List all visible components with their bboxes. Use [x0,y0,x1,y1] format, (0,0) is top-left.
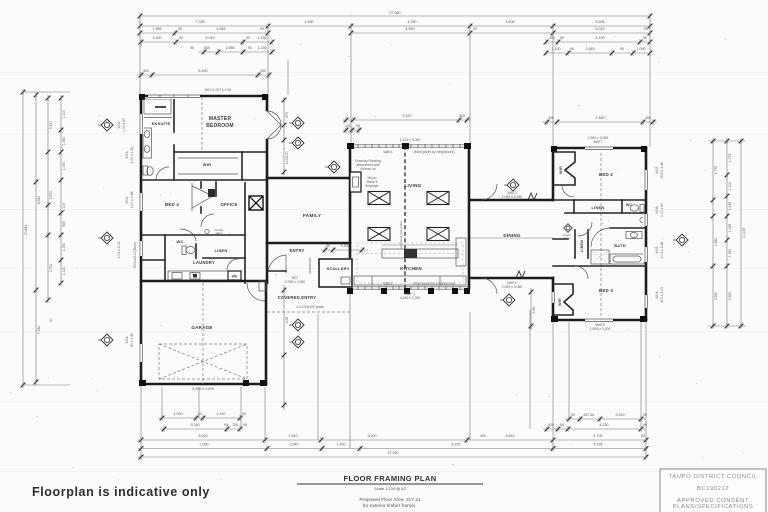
bottom wall of bath row [553,265,646,267]
svg-text:27.360: 27.360 [390,11,401,15]
svg-text:1.100: 1.100 [728,182,732,191]
master door arcs to right [267,111,281,139]
svg-text:1.905 x 3.050: 1.905 x 3.050 [588,136,609,140]
svg-text:3.630: 3.630 [728,292,732,301]
svg-text:2.645: 2.645 [586,47,595,51]
dim row 8 (over right wing) [542,121,657,123]
door arc top [481,184,497,200]
mini rows left [158,417,243,419]
svg-text:837.60: 837.60 [584,413,595,417]
svg-text:1.390: 1.390 [728,249,732,258]
svg-text:1.00 x 60: 1.00 x 60 [660,203,664,217]
dim row 5 [198,51,272,53]
window left wall garage [138,344,144,362]
svg-text:1.905 x 3.200: 1.905 x 3.200 [590,327,611,331]
svg-text:Wall 1: Wall 1 [383,150,392,154]
svg-text:4.590: 4.590 [305,20,314,24]
svg-text:20.841: 20.841 [24,225,28,235]
svg-text:ENSUITE: ENSUITE [152,121,171,126]
svg-text:90: 90 [242,412,246,416]
svg-text:LIVING: LIVING [404,183,421,189]
svg-text:8.155: 8.155 [452,443,461,447]
svg-text:1.400: 1.400 [337,443,346,447]
svg-text:HW: HW [232,275,238,279]
svg-text:1.100: 1.100 [62,203,66,212]
corner piers [139,94,145,100]
svg-text:W05: W05 [655,246,659,253]
window left wall bed4 [138,193,144,211]
svg-text:3.300: 3.300 [341,244,350,248]
svg-text:W01: W01 [125,196,129,203]
svg-text:2.095 x 3.050: 2.095 x 3.050 [502,285,523,289]
svg-text:LINEN: LINEN [592,205,605,210]
bottom window band [351,286,469,288]
dim row 4 [141,41,272,43]
svg-text:1.350: 1.350 [62,243,66,252]
linen / wc row [553,199,646,201]
svg-text:KITCHEN: KITCHEN [400,266,422,271]
wc/linen/laundry row [141,234,245,236]
interior: ensuite [173,96,175,132]
svg-text:9.520: 9.520 [37,196,41,205]
svg-text:TAUPO DISTRICT COUNCIL: TAUPO DISTRICT COUNCIL [669,474,758,480]
svg-text:90: 90 [190,46,194,50]
svg-text:MAF7: MAF7 [593,140,602,144]
dim row 6 (8.200 over left wing) [137,74,269,76]
svg-text:1.880: 1.880 [714,238,718,247]
svg-text:4.240 x 2.280: 4.240 x 2.280 [400,296,421,300]
svg-text:MASTER: MASTER [209,116,231,122]
svg-text:5.640: 5.640 [506,434,515,438]
hall linen [574,230,576,258]
svg-text:fireplace: fireplace [366,184,379,188]
svg-text:7.050: 7.050 [200,443,209,447]
svg-text:LINEN: LINEN [215,248,228,253]
svg-text:BED 4: BED 4 [165,202,179,207]
long row D [138,448,648,450]
svg-text:BEDROOM: BEDROOM [206,123,234,129]
svg-text:1.985: 1.985 [153,27,162,31]
svg-text:WC: WC [626,203,632,207]
svg-text:140: 140 [345,124,351,128]
kitchen counter [354,276,466,285]
svg-text:PLANS/SPECIFICATIONS: PLANS/SPECIFICATIONS [673,504,754,510]
svg-text:1.090: 1.090 [637,47,646,51]
extension verticals [139,16,141,94]
svg-text:2000x2100(Door): 2000x2100(Door) [133,242,137,268]
outer walls [141,95,267,98]
svg-text:3.100: 3.100 [368,434,377,438]
svg-text:90: 90 [224,423,228,427]
svg-text:5.49: 5.49 [532,307,536,314]
svg-text:90: 90 [643,423,647,427]
svg-text:1.00 x 1.80: 1.00 x 1.80 [130,146,134,163]
svg-text:1.980: 1.980 [62,137,66,146]
svg-text:985: 985 [62,221,66,227]
kitchen tall cabinets [456,238,466,266]
centre join dashed [404,146,406,288]
svg-text:W16: W16 [125,336,129,343]
svg-text:1.450: 1.450 [153,36,162,40]
svg-text:5.000 x 4.400: 5.000 x 4.400 [192,387,214,391]
svg-text:4.4 100x100 posts: 4.4 100x100 posts [296,305,324,309]
svg-text:600 x 2.46: 600 x 2.46 [660,162,664,178]
svg-text:90: 90 [641,434,645,438]
bath [610,227,646,229]
svg-text:5.205: 5.205 [596,20,605,24]
svg-text:7.338: 7.338 [196,20,205,24]
svg-text:1.185: 1.185 [728,224,732,233]
window squiggles [528,193,537,200]
svg-text:1.00 x 2.46: 1.00 x 2.46 [130,191,134,208]
dark skylight box in hall [249,196,263,210]
svg-text:4.555: 4.555 [217,27,226,31]
svg-text:BATH: BATH [614,243,626,248]
svg-text:Scale 1:100 @ A2: Scale 1:100 @ A2 [374,486,407,491]
scullery [319,259,352,287]
svg-text:90: 90 [643,36,647,40]
svg-text:90: 90 [49,318,53,322]
svg-text:90: 90 [620,47,624,51]
svg-text:COVERED ENTRY: COVERED ENTRY [278,295,317,300]
svg-text:W03: W03 [125,151,129,158]
svg-text:1.145: 1.145 [728,202,732,211]
svg-text:FLOOR FRAMING PLAN: FLOOR FRAMING PLAN [343,474,436,483]
svg-text:4.480: 4.480 [596,116,605,120]
svg-text:WC: WC [176,239,183,244]
svg-text:90: 90 [643,413,647,417]
svg-text:90: 90 [356,124,360,128]
svg-text:90: 90 [326,244,330,248]
long row E overall [138,456,648,458]
hot water [228,271,241,280]
svg-text:ENTRY: ENTRY [289,248,304,253]
door arcs [578,222,592,236]
dim row 2 [140,25,650,27]
svg-text:4.008: 4.008 [506,20,515,24]
svg-text:90: 90 [260,27,264,31]
svg-text:BED 2: BED 2 [599,172,613,177]
svg-text:1.425 x 3.050: 1.425 x 3.050 [400,138,421,142]
svg-text:975: 975 [285,112,289,118]
svg-text:100x100: 100x100 [285,151,289,164]
window left wall wc [138,241,144,256]
svg-text:WIR: WIR [558,298,562,306]
svg-text:W13 1.007 x 0.40: W13 1.007 x 0.40 [205,88,232,92]
svg-text:SCULLERY: SCULLERY [326,266,349,271]
svg-text:FAMILY: FAMILY [303,213,322,219]
svg-text:4.95: 4.95 [285,317,289,324]
svg-text:1.900: 1.900 [174,412,183,416]
wir top left [600,148,602,320]
svg-text:400 x 2.03: 400 x 2.03 [660,287,664,303]
smoke alarms in courtyard [289,117,304,129]
svg-text:(to exterior timber frame): (to exterior timber frame) [363,503,416,509]
svg-text:1.685: 1.685 [226,46,235,50]
window right wing top wall [585,145,613,151]
svg-text:4.100: 4.100 [596,36,605,40]
svg-text:450: 450 [549,36,555,40]
svg-text:alarm: alarm [564,236,572,240]
svg-text:8.200: 8.200 [199,69,208,73]
dim row 1 overall 27.360 [140,15,650,17]
svg-text:90: 90 [560,36,564,40]
svg-text:BED 3: BED 3 [599,288,613,293]
svg-text:1.120: 1.120 [62,267,66,276]
svg-text:4.230: 4.230 [600,423,609,427]
svg-text:80 x 2.40: 80 x 2.40 [130,333,134,347]
svg-text:W07: W07 [655,166,659,173]
svg-text:Floorplan is indicative only: Floorplan is indicative only [32,485,210,499]
svg-text:OFFICE: OFFICE [220,202,237,207]
svg-text:400: 400 [260,69,266,73]
extension verticals [140,387,142,457]
meter box on garage wall [259,281,266,291]
long row C [138,439,648,441]
svg-text:WIR: WIR [559,166,563,174]
svg-text:90: 90 [644,27,648,31]
svg-text:2.750: 2.750 [49,264,53,273]
svg-text:4.590: 4.590 [406,27,415,31]
svg-text:90: 90 [246,36,250,40]
svg-text:BC190212: BC190212 [697,486,729,492]
dim row 3 [140,32,268,34]
svg-text:1.336: 1.336 [258,36,267,40]
svg-text:2.840: 2.840 [290,443,299,447]
svg-text:1.03 x 2.46: 1.03 x 2.46 [660,241,664,258]
svg-text:Proposed Floor Area: 317.21: Proposed Floor Area: 317.21 [359,497,421,503]
svg-text:W04: W04 [655,291,659,298]
svg-text:1.03 x 2.03: 1.03 x 2.03 [117,241,121,258]
svg-text:9.240: 9.240 [191,423,200,427]
svg-text:4.700: 4.700 [408,20,417,24]
svg-text:2.995 x 2.060: 2.995 x 2.060 [285,280,306,284]
garage door arc at top right [247,283,265,301]
dim row 7 (over living) [343,119,471,121]
svg-text:1.336: 1.336 [258,46,267,50]
svg-text:(fixed panel by neighbours): (fixed panel by neighbours) [414,150,455,154]
svg-text:2.095 x 3.050: 2.095 x 3.050 [502,195,523,199]
svg-text:5.470: 5.470 [49,121,53,130]
bed4 / office row [244,183,246,283]
svg-text:1.090: 1.090 [62,162,66,171]
svg-text:10.145: 10.145 [742,228,746,238]
svg-text:705: 705 [232,423,238,427]
mini rows right [565,418,646,420]
svg-text:5.795: 5.795 [594,443,603,447]
svg-text:GARAGE: GARAGE [191,325,212,330]
middle wall [565,212,646,214]
svg-text:5.620: 5.620 [199,434,208,438]
svg-text:90: 90 [570,47,574,51]
fireplace on left wall [350,172,361,192]
svg-text:WIR: WIR [203,162,211,167]
svg-text:27.280: 27.280 [388,451,399,455]
svg-text:1.775: 1.775 [728,154,732,163]
svg-text:400: 400 [143,69,149,73]
svg-text:400: 400 [480,434,486,438]
svg-text:1.00 x 60: 1.00 x 60 [122,118,126,132]
smoke alarm near kitchen left [325,161,340,173]
kitchen floor dashed zone [357,243,463,283]
laundry bottom wall [141,280,267,283]
stamp box [660,469,766,512]
svg-text:830: 830 [204,46,210,50]
svg-text:5.705: 5.705 [594,434,603,438]
svg-text:6.023: 6.023 [596,27,605,31]
island bench [382,249,458,258]
svg-text:90: 90 [179,36,183,40]
svg-text:2.775: 2.775 [714,166,718,175]
svg-text:2.810: 2.810 [289,434,298,438]
piers under bottom wall [347,288,353,294]
svg-text:90: 90 [571,413,575,417]
svg-text:400mm on: 400mm on [360,167,376,171]
svg-text:5.045: 5.045 [206,36,215,40]
svg-text:2.440: 2.440 [217,412,226,416]
svg-text:W06: W06 [655,206,659,213]
top window band [351,144,469,146]
svg-text:3.140: 3.140 [616,413,625,417]
svg-text:7.330: 7.330 [37,326,41,335]
svg-text:LINEN: LINEN [580,240,584,252]
svg-text:400: 400 [459,114,465,118]
laundry bench [168,271,228,280]
svg-text:5.310: 5.310 [403,114,412,118]
window bed3 bottom wall [585,317,613,323]
svg-text:3.570: 3.570 [49,191,53,200]
small dim above scullery [321,249,368,251]
svg-text:1.100: 1.100 [62,110,66,119]
svg-text:90: 90 [243,423,247,427]
svg-text:LAUNDRY: LAUNDRY [193,260,215,265]
window left wall ensuite [138,114,144,134]
wir [241,152,243,180]
svg-text:3.930: 3.930 [714,292,718,301]
windows right wall [643,170,649,190]
svg-text:90: 90 [178,27,182,31]
skylight boxes [368,192,390,205]
svg-text:90: 90 [560,423,564,427]
svg-text:DINING: DINING [503,233,521,238]
svg-text:90: 90 [473,27,477,31]
svg-text:W02: W02 [117,121,121,128]
horizontal tops of extension [23,91,70,93]
svg-text:90: 90 [198,412,202,416]
window top wall master [148,93,200,99]
svg-text:90: 90 [248,46,252,50]
